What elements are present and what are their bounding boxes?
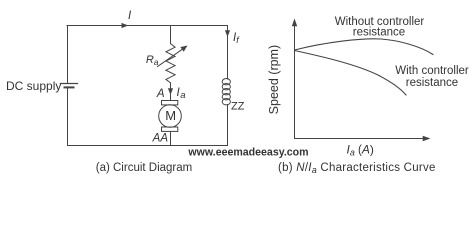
wire top conductor [67,25,228,27]
svg-text:Ia: Ia [177,87,186,101]
resistor Ra wiper arrow [158,46,188,67]
wire motor to bottom conductor [170,132,172,146]
current arrow Ia [168,88,173,95]
curve with controller resistance [295,51,407,96]
svg-text:A: A [156,88,165,100]
svg-text:With controller: With controller [395,65,469,77]
svg-text:resistance: resistance [353,26,405,38]
battery B1 short plate [65,86,74,88]
chart x-axis arrowhead [423,136,431,141]
wire bottom conductor [68,145,228,147]
svg-text:Speed (rpm): Speed (rpm) [267,45,281,114]
battery B1 long plate [61,83,78,85]
svg-text:resistance: resistance [406,77,458,89]
svg-text:(a) Circuit Diagram: (a) Circuit Diagram [96,162,193,174]
chart y-axis [294,26,296,139]
svg-text:ZZ: ZZ [231,101,245,113]
chart y-axis arrowhead [292,19,297,27]
svg-text:www.eeemadeeasy.com: www.eeemadeeasy.com [187,147,308,159]
label Speed (rpm) [267,45,281,114]
resistor Ra zigzag [166,44,175,83]
svg-text:M: M [165,108,176,123]
svg-text:AA: AA [152,133,169,145]
svg-text:(b) N/Ia Characteristics Curve: (b) N/Ia Characteristics Curve [278,162,436,175]
svg-text:DC supply: DC supply [6,79,61,93]
current arrow I on top wire [122,23,129,28]
wire middle branch top [170,26,172,44]
chart x-axis [295,138,424,140]
inductor ZZ coil [222,79,230,105]
motor M1 bottom brush [162,127,178,131]
curve without controller resistance [295,39,434,55]
wire right branch lower [227,105,229,146]
wire resistor to motor [170,83,172,101]
motor M1 body [159,105,182,128]
motor M1 top brush [162,101,178,105]
current arrow If [225,30,230,37]
wire right branch upper [227,26,229,80]
wire left conductor lower [67,87,69,145]
wire left conductor upper [67,26,69,84]
